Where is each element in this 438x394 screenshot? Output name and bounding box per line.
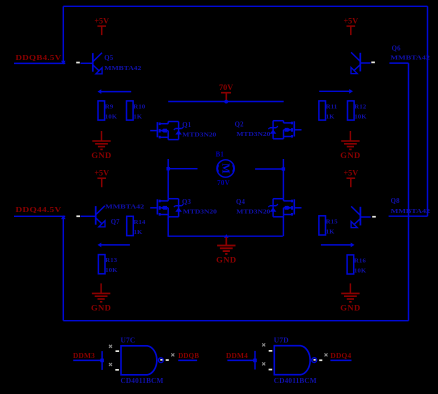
svg-text:Q8: Q8 [391, 198, 400, 205]
transistor Q6 [359, 53, 361, 72]
svg-text:MMBTA42: MMBTA42 [391, 208, 431, 215]
junction arrow bottom rail [224, 234, 229, 238]
node U7C input junction [100, 359, 104, 363]
svg-text:R12: R12 [354, 104, 366, 111]
svg-text:R9: R9 [105, 104, 114, 111]
svg-text:GND: GND [340, 150, 360, 160]
svg-text:R13: R13 [105, 257, 117, 264]
svg-text:70V: 70V [219, 83, 233, 92]
wire right vertical [427, 6, 429, 216]
wire right bridge vertical [282, 159, 284, 199]
junction arrow DDQ4 [61, 215, 66, 219]
gate U7C CD4011BCM [121, 346, 157, 375]
svg-text:DDQB4.5V: DDQB4.5V [16, 53, 62, 62]
wire DDM4 [227, 359, 255, 361]
svg-text:DDM3: DDM3 [73, 351, 95, 360]
pin marks U7D inputs [262, 343, 265, 346]
svg-text:DDQB: DDQB [178, 351, 199, 360]
wire DDQB left vertical [62, 6, 64, 61]
wire arrow left row1 [100, 91, 132, 93]
svg-text:Q6: Q6 [392, 45, 401, 52]
svg-text:+5V: +5V [94, 169, 109, 178]
svg-text:MTD3N20: MTD3N20 [183, 209, 217, 216]
junction dot 70V rail [224, 100, 228, 104]
svg-text:MTD3N20: MTD3N20 [182, 132, 216, 139]
wire Q4 source [282, 217, 284, 236]
svg-text:R14: R14 [134, 219, 146, 226]
svg-text:1K: 1K [326, 228, 335, 235]
pin stub Q8 base [372, 216, 376, 218]
ground top-left [101, 131, 103, 141]
wire 70V rail [168, 101, 284, 103]
resistor R9 10K [98, 101, 105, 120]
svg-text:GND: GND [216, 255, 236, 265]
mosfet Q2 MTD3N20 [294, 129, 301, 131]
svg-text:10K: 10K [105, 267, 118, 274]
svg-text:R11: R11 [326, 104, 338, 111]
wire DDQ4 left vertical [62, 219, 64, 321]
gate U7D CD4011BCM [274, 346, 310, 375]
svg-text:Q4: Q4 [236, 199, 245, 206]
svg-text:R10: R10 [133, 104, 145, 111]
wire Q5 base [81, 62, 93, 64]
transistor Q5 [92, 53, 94, 72]
svg-text:Q2: Q2 [235, 121, 244, 128]
svg-text:Q1: Q1 [182, 122, 191, 129]
svg-text:CD4011BCM: CD4011BCM [274, 376, 317, 385]
wire Q8 base [360, 216, 370, 218]
resistor R15 1K [319, 216, 326, 235]
svg-text:DDQ44.5V: DDQ44.5V [16, 205, 62, 214]
svg-text:R16: R16 [354, 258, 366, 265]
svg-text:MMBTA42: MMBTA42 [105, 203, 144, 210]
svg-text:70V: 70V [217, 179, 230, 187]
node U7D input junction [253, 359, 257, 363]
svg-text:M: M [220, 163, 232, 174]
svg-text:U7C: U7C [121, 336, 136, 345]
wire motor right [255, 168, 283, 170]
svg-text:10K: 10K [354, 267, 367, 274]
resistor R16 10K [347, 255, 354, 274]
wire DDQ4 input horizontal [14, 215, 65, 217]
transistor Q8 [359, 207, 361, 226]
transistor Q7 [95, 206, 97, 225]
ground bottom-left [100, 283, 102, 293]
wire Q6 base horizontal [389, 62, 408, 64]
svg-text:10K: 10K [105, 113, 118, 120]
svg-text:Q7: Q7 [111, 219, 120, 226]
wire top horizontal [63, 5, 427, 7]
svg-text:CD4011BCM: CD4011BCM [121, 376, 164, 385]
svg-text:1K: 1K [134, 229, 143, 236]
svg-text:Q3: Q3 [182, 199, 191, 206]
wire DDQB output [178, 359, 197, 361]
svg-text:+5V: +5V [343, 169, 358, 178]
resistor R13 10K [98, 255, 105, 274]
svg-text:U7D: U7D [274, 336, 289, 345]
wire bottom rail [168, 235, 283, 237]
svg-text:MMBTA42: MMBTA42 [390, 55, 430, 62]
node left motor junction [167, 167, 170, 170]
resistor R12 10K [348, 101, 355, 120]
mosfet Q1 MTD3N20 [150, 130, 157, 132]
svg-text:DDM4: DDM4 [226, 351, 248, 360]
wire U7C input vertical [101, 351, 103, 370]
wire DDQ4 output [330, 359, 351, 361]
wire bottom horizontal [63, 320, 408, 322]
wire Q6 base [360, 62, 370, 64]
ground top-right [349, 131, 351, 141]
svg-text:GND: GND [91, 302, 111, 312]
resistor R11 1K [319, 101, 326, 120]
node right motor junction [282, 167, 285, 170]
pin stub U7D output [314, 359, 316, 361]
pin stub Q5 base [76, 62, 80, 64]
wire left bridge vertical [167, 159, 169, 199]
pin stub U7C output [160, 359, 162, 361]
wire Q8 base horizontal [389, 215, 428, 217]
wire DDQB input horizontal [14, 62, 65, 64]
svg-text:1K: 1K [326, 113, 335, 120]
svg-text:+5V: +5V [343, 16, 358, 25]
wire mid-right vertical [408, 63, 410, 321]
wire motor left [168, 168, 197, 170]
wire arrow right row1 [319, 90, 351, 92]
svg-text:MMBTA42: MMBTA42 [104, 65, 141, 72]
svg-text:GND: GND [91, 150, 111, 160]
wire Q7 base [81, 215, 96, 217]
resistor R14 1K [127, 216, 134, 235]
svg-text:MTD3N20: MTD3N20 [236, 131, 270, 138]
wire arrow left row2 [100, 244, 130, 246]
wire DDM3 [73, 359, 102, 361]
svg-text:DDQ4: DDQ4 [330, 351, 351, 360]
svg-text:+5V: +5V [94, 16, 109, 25]
pin stub Q7 base [76, 215, 80, 217]
wire Q3 source [167, 217, 169, 236]
resistor R10 1K [127, 101, 134, 120]
svg-text:Q5: Q5 [104, 55, 113, 62]
svg-text:MTD3N20: MTD3N20 [236, 209, 270, 216]
wire U7D input vertical [254, 351, 256, 370]
mosfet Q3 MTD3N20 [150, 207, 157, 209]
svg-text:B1: B1 [216, 151, 225, 158]
wire arrow right row2 [321, 244, 352, 246]
svg-text:10K: 10K [354, 113, 367, 120]
junction arrow DDQB [61, 61, 66, 65]
pin stub Q6 base [371, 62, 375, 64]
mosfet Q4 MTD3N20 [294, 207, 301, 209]
ground center [225, 237, 227, 246]
pin marks U7C inputs [109, 345, 112, 348]
svg-text:R15: R15 [326, 218, 338, 225]
svg-text:1K: 1K [133, 113, 142, 120]
ground bottom-right [349, 283, 351, 293]
svg-text:GND: GND [340, 302, 360, 312]
